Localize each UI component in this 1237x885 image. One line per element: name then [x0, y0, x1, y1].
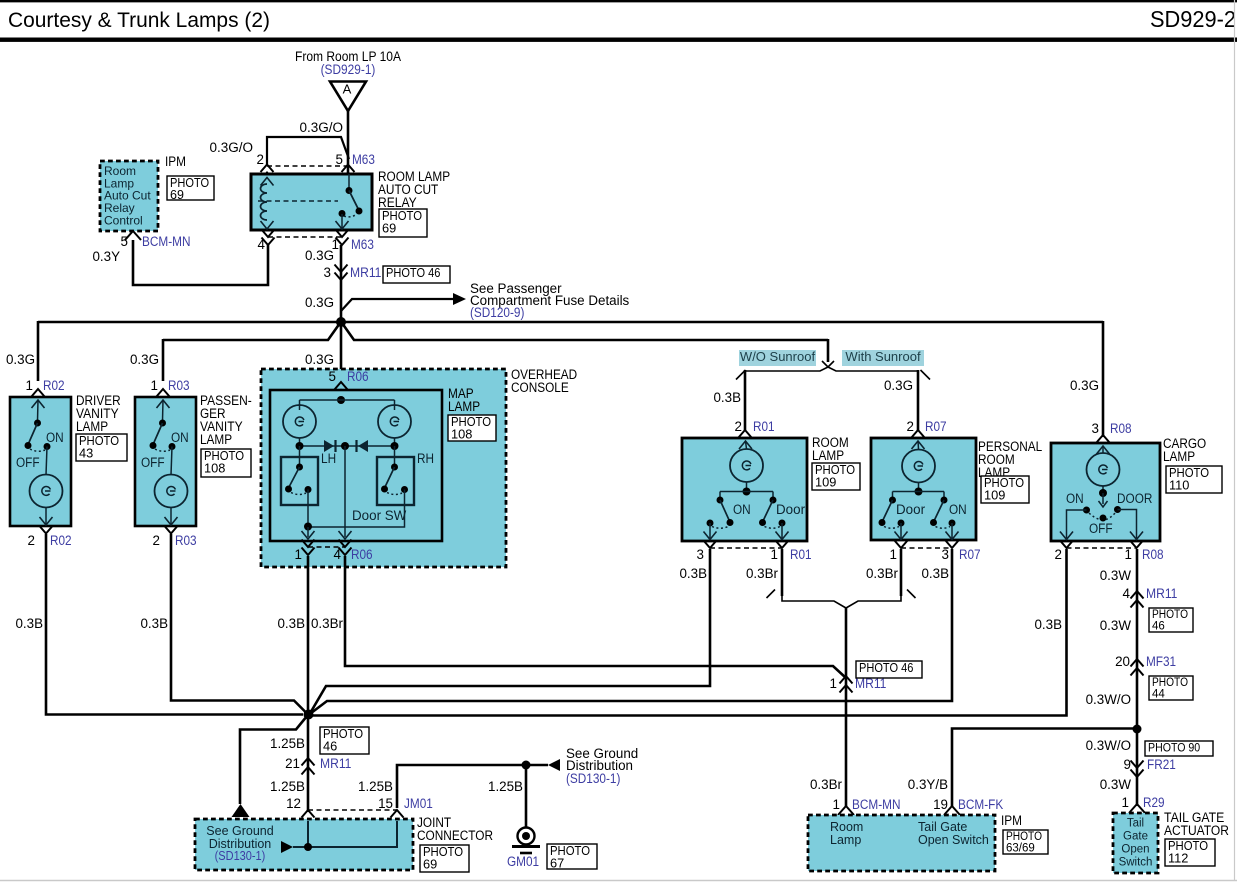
svg-text:Courtesy & Trunk Lamps (2): Courtesy & Trunk Lamps (2)	[8, 7, 270, 32]
svg-text:1.25B: 1.25B	[488, 779, 523, 794]
svg-text:112: 112	[1168, 851, 1188, 866]
inline connector MR11 pin 4	[1131, 591, 1144, 599]
svg-text:3: 3	[697, 547, 704, 562]
wire 0.3B room lamp pin 3 to ground junction	[311, 549, 711, 713]
svg-text:0.3B: 0.3B	[921, 566, 949, 581]
wire 0.3B passenger vanity to ground junction	[171, 534, 307, 713]
cargo DOOR wire to pin 1	[1118, 510, 1137, 539]
rail corner wire to driver vanity	[37, 321, 40, 381]
wire 0.3G relay pin 1 down	[340, 245, 343, 322]
svg-text:OFF: OFF	[141, 455, 165, 470]
svg-text:0.3G: 0.3G	[305, 352, 334, 367]
svg-text:Open: Open	[1121, 844, 1149, 856]
svg-text:MR11: MR11	[350, 265, 381, 280]
svg-text:0.3W: 0.3W	[1100, 618, 1132, 633]
power connector triangle A	[330, 82, 366, 112]
wire 0.3B to room lamp	[744, 370, 747, 431]
svg-text:19: 19	[933, 797, 948, 812]
svg-text:4: 4	[258, 237, 266, 252]
connector R08 bottom pins	[1060, 541, 1073, 549]
svg-text:2: 2	[1055, 547, 1062, 562]
svg-text:0.3B: 0.3B	[277, 616, 305, 631]
svg-text:0.3Br: 0.3Br	[810, 777, 843, 792]
branch arrow See Passenger Compartment Fuse Details	[341, 299, 453, 311]
svg-text:1: 1	[771, 547, 778, 562]
merge tick right	[907, 590, 916, 599]
svg-text:BCM-MN: BCM-MN	[852, 797, 901, 812]
driver vanity bulb	[30, 475, 63, 508]
joint connector box	[195, 819, 413, 870]
svg-text:DOOR: DOOR	[1117, 491, 1153, 506]
svg-text:0.3Y/B: 0.3Y/B	[908, 777, 948, 792]
svg-text:Switch: Switch	[1119, 857, 1153, 869]
svg-text:LAMP: LAMP	[200, 432, 232, 447]
svg-text:0.3Br: 0.3Br	[866, 566, 899, 581]
passenger vanity switch	[159, 420, 166, 427]
svg-text:1: 1	[833, 797, 840, 812]
connector M63 bottom dashed link	[268, 236, 342, 238]
svg-text:0.3Y: 0.3Y	[92, 249, 120, 264]
svg-text:110: 110	[1169, 478, 1189, 493]
svg-text:15: 15	[378, 796, 393, 811]
personal room lamp bulb	[902, 450, 935, 483]
wire 0.3Br room lamp pin 1	[781, 549, 784, 596]
svg-text:Tail: Tail	[1127, 818, 1144, 830]
svg-text:Tail Gate: Tail Gate	[918, 820, 967, 834]
svg-text:R06: R06	[347, 369, 369, 384]
wire 0.3W cargo pin 1 down	[1136, 549, 1139, 806]
svg-text:(SD130-1): (SD130-1)	[215, 849, 266, 863]
inline connector MR11 pin 3	[335, 265, 348, 273]
header rule	[0, 38, 1237, 42]
inline connector FR21 pin 9	[1131, 761, 1144, 769]
wire map lamp centre to pin 4	[344, 446, 346, 537]
cargo lamp box	[1051, 443, 1160, 541]
svg-text:0.3G/O: 0.3G/O	[209, 140, 253, 155]
personal lamp Door switch	[889, 497, 896, 504]
svg-text:R02: R02	[50, 533, 72, 548]
ground junction dot	[304, 710, 314, 720]
svg-text:ACTUATOR: ACTUATOR	[1164, 823, 1229, 838]
joint connector internal arrow	[281, 841, 293, 853]
diode pair	[299, 438, 301, 446]
svg-text:A: A	[343, 82, 352, 97]
svg-text:1: 1	[295, 547, 302, 562]
svg-text:1: 1	[151, 378, 158, 393]
svg-text:PHOTO 46: PHOTO 46	[859, 661, 913, 675]
svg-text:1: 1	[890, 547, 897, 562]
svg-text:1.25B: 1.25B	[358, 779, 393, 794]
label With Sunroof	[842, 350, 924, 366]
svg-text:0.3B: 0.3B	[679, 566, 707, 581]
room lamp switch bus	[720, 491, 773, 493]
svg-text:BCM-FK: BCM-FK	[958, 797, 1003, 812]
svg-text:3: 3	[1092, 421, 1099, 436]
wire 0.3B console pin 1 to ground junction	[307, 556, 310, 715]
svg-text:0.3G: 0.3G	[1070, 378, 1099, 393]
second rail wire y340 left	[163, 323, 340, 340]
svg-text:43: 43	[79, 446, 93, 461]
pin 19 BCM-FK	[944, 806, 960, 815]
wire 0.3B cargo pin 2 to ground junction	[308, 549, 1067, 716]
IPM PHOTO 69 box	[167, 176, 214, 200]
svg-text:CONSOLE: CONSOLE	[511, 380, 569, 395]
svg-text:R01: R01	[753, 419, 775, 434]
page top border	[0, 0, 1237, 2]
svg-text:0.3Br: 0.3Br	[311, 616, 344, 631]
wire sunroof option split	[827, 339, 830, 362]
svg-text:(SD130-1): (SD130-1)	[566, 771, 620, 786]
svg-text:69: 69	[382, 221, 396, 236]
svg-text:108: 108	[204, 461, 225, 476]
svg-text:46: 46	[323, 739, 337, 754]
svg-text:Open Switch: Open Switch	[918, 833, 989, 847]
pin 2 R03	[165, 526, 178, 534]
wire 0.3Y/B BCM-FK to tail gate junction	[952, 729, 1137, 807]
inline connector MR11 pin 1	[840, 676, 853, 684]
driver vanity lamp box	[32, 389, 45, 397]
svg-text:3: 3	[942, 547, 949, 562]
svg-text:0.3G: 0.3G	[6, 352, 35, 367]
svg-text:R08: R08	[1110, 421, 1132, 436]
room lamp ON switch	[717, 497, 724, 504]
svg-text:Door: Door	[896, 502, 926, 517]
svg-text:BCM-MN: BCM-MN	[142, 234, 191, 249]
svg-text:1: 1	[830, 676, 837, 691]
LH door switch box	[281, 457, 318, 505]
relay internal dashed link	[258, 200, 338, 202]
svg-text:PHOTO 90: PHOTO 90	[1148, 740, 1200, 754]
svg-text:1.25B: 1.25B	[270, 779, 305, 794]
merge wires into MR11 pin 1	[782, 595, 846, 608]
svg-text:2: 2	[907, 419, 914, 434]
svg-text:0.3B: 0.3B	[15, 616, 43, 631]
svg-text:With Sunroof: With Sunroof	[845, 349, 921, 364]
connector R06 bottom pins	[302, 540, 315, 548]
svg-text:ON: ON	[171, 430, 189, 445]
svg-text:67: 67	[550, 856, 564, 871]
wire 0.3Y BCM-MN to relay pin 4	[133, 240, 268, 285]
svg-text:MR11: MR11	[320, 756, 351, 771]
svg-text:Door: Door	[776, 502, 806, 517]
svg-text:2: 2	[257, 152, 264, 167]
cargo ON wire to pin 2	[1067, 510, 1087, 538]
svg-text:R01: R01	[790, 547, 812, 562]
room lamp Door switch	[770, 497, 777, 504]
connector R07 bottom pins	[895, 541, 908, 549]
wire to GM01 ground	[525, 765, 528, 827]
wire 0.3B personal lamp pin 3 to ground junction	[311, 549, 953, 714]
wire 0.3Br console pin 4 to MR11	[345, 556, 846, 678]
ground continuation triangle	[232, 804, 250, 817]
second rail wire y340 right	[342, 323, 828, 340]
svg-text:FR21: FR21	[1147, 757, 1176, 772]
svg-text:MR11: MR11	[1146, 586, 1177, 601]
svg-text:ON: ON	[46, 430, 64, 445]
svg-text:(SD120-9): (SD120-9)	[470, 305, 524, 320]
wire 1.25B junction to MR11 pin 21	[307, 717, 310, 812]
svg-text:9: 9	[1124, 757, 1131, 772]
cargo lamp bulb	[1087, 453, 1120, 486]
svg-text:RH: RH	[417, 451, 434, 466]
junction dot tail gate feed	[1133, 725, 1142, 734]
svg-text:Door SW: Door SW	[352, 508, 407, 523]
svg-text:R29: R29	[1143, 795, 1165, 810]
svg-text:ON: ON	[733, 502, 751, 517]
svg-text:0.3G: 0.3G	[305, 248, 334, 263]
passenger vanity lamp box	[157, 389, 170, 397]
svg-text:W/O Sunroof: W/O Sunroof	[740, 349, 816, 364]
svg-text:69: 69	[423, 857, 437, 872]
label W/O Sunroof	[739, 350, 816, 366]
main rail wire y322	[38, 321, 1103, 324]
pin 2 R02	[40, 526, 53, 534]
svg-text:OFF: OFF	[16, 455, 40, 470]
map lamp inner box	[270, 390, 442, 541]
svg-text:LAMP: LAMP	[448, 399, 480, 414]
see ground distribution triangle right	[548, 759, 560, 771]
page bottom border	[0, 880, 1237, 882]
svg-text:44: 44	[1152, 688, 1165, 700]
door switch ground node	[304, 523, 312, 531]
passenger vanity bulb	[155, 475, 188, 508]
svg-text:109: 109	[984, 488, 1005, 503]
svg-text:Gate: Gate	[1123, 831, 1148, 843]
svg-text:R02: R02	[43, 378, 65, 393]
svg-text:R06: R06	[351, 547, 373, 562]
svg-text:12: 12	[286, 796, 301, 811]
svg-text:PHOTO: PHOTO	[1152, 609, 1188, 621]
svg-text:(SD929-1): (SD929-1)	[321, 62, 376, 77]
connector M63 pin 5 chevrons	[342, 165, 355, 173]
wire 1.25B JM01 pin 15 to ground	[397, 765, 548, 808]
relay box ROOM LAMP AUTO CUT RELAY	[251, 174, 372, 230]
svg-text:SD929-2: SD929-2	[1150, 6, 1236, 32]
svg-text:R07: R07	[925, 419, 947, 434]
svg-text:0.3B: 0.3B	[140, 616, 168, 631]
map lamp LH bulb	[283, 405, 316, 438]
svg-text:PHOTO 46: PHOTO 46	[386, 266, 440, 280]
wires to pins 1 and 4	[307, 527, 309, 537]
map lamp feed node	[337, 396, 345, 404]
svg-text:0.3G: 0.3G	[884, 378, 913, 393]
svg-text:Room: Room	[830, 820, 863, 834]
page right border	[1234, 0, 1236, 881]
svg-text:ON: ON	[1066, 491, 1084, 506]
joint connector internal wires	[307, 821, 309, 847]
svg-text:108: 108	[451, 427, 472, 442]
svg-text:1: 1	[26, 378, 33, 393]
svg-text:Lamp: Lamp	[830, 833, 861, 847]
IPM box Room Lamp Auto Cut Relay Control	[100, 161, 158, 231]
svg-text:1: 1	[1122, 795, 1129, 810]
wire 0.3G to personal room lamp	[917, 370, 920, 431]
svg-text:0.3B: 0.3B	[713, 390, 741, 405]
svg-text:M63: M63	[351, 237, 374, 252]
svg-text:LH: LH	[321, 451, 336, 466]
RH switch return wire	[308, 490, 405, 528]
wire 0.3Br personal lamp pin 1	[900, 549, 903, 596]
svg-text:2: 2	[735, 419, 742, 434]
second rail corner to passenger vanity	[162, 339, 165, 381]
junction dot main distribution	[336, 317, 346, 327]
svg-text:MF31: MF31	[1146, 654, 1176, 669]
svg-text:0.3G: 0.3G	[130, 352, 159, 367]
ground branch dot	[522, 761, 531, 770]
svg-text:0.3B: 0.3B	[1034, 617, 1062, 632]
rail corner wire to cargo lamp	[1102, 321, 1105, 437]
svg-text:R08: R08	[1142, 547, 1164, 562]
relay switch	[348, 174, 350, 188]
connector JM01 pins 12 and 15	[302, 810, 315, 818]
svg-text:69: 69	[170, 188, 184, 202]
wire to see ground distribution triangle	[240, 716, 307, 804]
svg-text:JM01: JM01	[404, 796, 433, 811]
svg-text:20: 20	[1115, 654, 1130, 669]
svg-text:63/69: 63/69	[1006, 842, 1035, 854]
svg-text:Control: Control	[104, 214, 143, 228]
svg-text:0.3G/O: 0.3G/O	[299, 120, 343, 135]
connector M63 bottom pin 1 chevrons	[336, 230, 349, 238]
svg-text:5: 5	[329, 369, 336, 384]
svg-text:LAMP: LAMP	[812, 448, 844, 463]
svg-text:0.3W/O: 0.3W/O	[1086, 738, 1131, 753]
driver vanity switch	[34, 420, 41, 427]
wire MR11 pin 1 to BCM-MN	[845, 608, 848, 806]
svg-text:GM01: GM01	[507, 854, 539, 869]
personal room lamp box	[871, 438, 976, 540]
svg-text:1.25B: 1.25B	[270, 736, 305, 751]
svg-text:ON: ON	[949, 502, 967, 517]
wire 0.3B driver vanity to ground junction	[46, 534, 303, 715]
svg-text:5: 5	[336, 152, 343, 167]
overhead console dashed box	[261, 369, 506, 567]
svg-text:IPM: IPM	[1001, 813, 1022, 828]
wire A to relay pin 5	[347, 111, 350, 173]
room lamp bulb	[730, 449, 763, 482]
svg-text:M63: M63	[352, 152, 375, 167]
svg-text:109: 109	[815, 475, 836, 490]
svg-text:OFF: OFF	[1089, 521, 1113, 536]
svg-text:CONNECTOR: CONNECTOR	[417, 828, 493, 843]
relay PHOTO 69 box	[379, 209, 427, 237]
map lamp RH bulb	[378, 405, 411, 438]
svg-text:0.3W: 0.3W	[1100, 777, 1132, 792]
svg-text:2: 2	[28, 533, 35, 548]
svg-text:5: 5	[121, 234, 128, 249]
connector M63 top dashed link	[267, 165, 348, 167]
wire 0.3G junction to overhead console	[340, 322, 343, 389]
inline connector MF31 pin 20	[1131, 659, 1144, 667]
svg-text:R03: R03	[168, 378, 190, 393]
pin 5 BCM-MN	[125, 231, 141, 240]
svg-text:PHOTO: PHOTO	[1152, 677, 1188, 689]
personal lamp ON switch	[941, 497, 948, 504]
connector M63 pin 2 chevrons	[261, 165, 274, 173]
svg-text:4: 4	[334, 547, 342, 562]
svg-text:46: 46	[1152, 620, 1165, 632]
connector M63 bottom pin 4 chevrons	[262, 230, 275, 238]
svg-text:LAMP: LAMP	[76, 419, 108, 434]
RH door switch box	[377, 457, 414, 505]
svg-text:3: 3	[324, 265, 331, 280]
jumper wire pin 2 to pin 5 0.3G/O	[267, 137, 349, 165]
svg-text:1: 1	[1125, 547, 1132, 562]
relay coil	[261, 178, 274, 186]
svg-text:0.3W/O: 0.3W/O	[1086, 692, 1131, 707]
ground symbol GM01	[518, 828, 535, 845]
tail gate open switch box	[1113, 813, 1158, 873]
cargo lamp selector	[1102, 493, 1104, 504]
svg-text:2: 2	[153, 533, 160, 548]
svg-text:PHOTO: PHOTO	[1006, 831, 1042, 843]
svg-text:0.3W: 0.3W	[1100, 568, 1132, 583]
svg-text:0.3Br: 0.3Br	[746, 566, 779, 581]
option tick W/O Sunroof	[736, 370, 746, 380]
personal lamp switch bus	[893, 491, 945, 493]
pin 1 BCM-MN	[838, 806, 854, 815]
merge tick left	[767, 590, 776, 599]
svg-text:21: 21	[285, 756, 300, 771]
svg-text:4: 4	[1123, 586, 1131, 601]
inline connector MR11 pin 21	[302, 758, 315, 766]
svg-text:LAMP: LAMP	[1163, 449, 1195, 464]
svg-text:IPM: IPM	[165, 154, 186, 169]
option tick With Sunroof	[921, 370, 931, 380]
room lamp box	[682, 438, 807, 541]
IPM box bottom	[808, 815, 995, 871]
connector R01 bottom pins	[704, 541, 717, 549]
svg-text:0.3G: 0.3G	[305, 295, 334, 310]
svg-text:R03: R03	[175, 533, 197, 548]
svg-text:R07: R07	[959, 547, 981, 562]
MR11 PHOTO 46 box	[383, 266, 450, 283]
